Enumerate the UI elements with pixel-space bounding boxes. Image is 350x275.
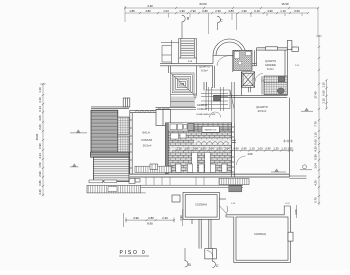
svg-text:8.90: 8.90 bbox=[147, 222, 153, 226]
svg-text:1.10: 1.10 bbox=[322, 98, 326, 104]
svg-text:45.60: 45.60 bbox=[35, 133, 39, 140]
svg-text:B: B bbox=[187, 16, 190, 21]
svg-text:0.90: 0.90 bbox=[265, 147, 271, 151]
svg-text:1.10: 1.10 bbox=[314, 132, 318, 138]
svg-text:0.95: 0.95 bbox=[241, 147, 247, 151]
svg-text:4.60: 4.60 bbox=[38, 115, 42, 121]
svg-text:1.10: 1.10 bbox=[322, 82, 326, 88]
svg-text:1.10: 1.10 bbox=[281, 147, 287, 151]
svg-text:1.90: 1.90 bbox=[241, 9, 247, 13]
svg-text:QUARTO: QUARTO bbox=[199, 65, 210, 69]
svg-text:20.5m²: 20.5m² bbox=[258, 109, 267, 113]
svg-text:0.90: 0.90 bbox=[38, 143, 42, 149]
svg-text:3.90: 3.90 bbox=[133, 216, 139, 220]
svg-text:1.90: 1.90 bbox=[179, 9, 185, 13]
svg-text:4.20: 4.20 bbox=[314, 180, 318, 186]
svg-text:7.70: 7.70 bbox=[314, 121, 318, 127]
svg-text:2.90: 2.90 bbox=[190, 9, 196, 13]
svg-text:0.60: 0.60 bbox=[322, 90, 326, 96]
svg-text:26.5m²: 26.5m² bbox=[143, 144, 152, 148]
svg-text:1.50: 1.50 bbox=[216, 147, 222, 151]
svg-text:PISO 0: PISO 0 bbox=[120, 250, 147, 256]
svg-text:1.50: 1.50 bbox=[184, 147, 190, 151]
svg-text:2.20: 2.20 bbox=[176, 147, 182, 151]
svg-text:4.90: 4.90 bbox=[267, 9, 273, 13]
svg-text:0.14: 0.14 bbox=[38, 106, 42, 112]
svg-text:0.60: 0.60 bbox=[294, 9, 300, 13]
svg-text:0.60: 0.60 bbox=[314, 139, 318, 145]
svg-text:0.90: 0.90 bbox=[314, 154, 318, 160]
svg-text:16.50: 16.50 bbox=[282, 2, 289, 6]
svg-text:1.04: 1.04 bbox=[163, 9, 169, 13]
svg-text:2.90: 2.90 bbox=[215, 9, 221, 13]
svg-text:1.04: 1.04 bbox=[314, 163, 318, 169]
svg-text:3.10: 3.10 bbox=[38, 97, 42, 103]
svg-text:BARBECUE: BARBECUE bbox=[205, 129, 218, 132]
svg-text:4.50: 4.50 bbox=[294, 209, 298, 215]
svg-text:4.14: 4.14 bbox=[38, 153, 42, 159]
svg-text:0.80: 0.80 bbox=[38, 180, 42, 186]
svg-text:1.04: 1.04 bbox=[224, 147, 230, 151]
svg-text:3.20: 3.20 bbox=[38, 189, 42, 195]
svg-text:COMUM: COMUM bbox=[141, 138, 153, 142]
svg-text:0.70: 0.70 bbox=[314, 197, 318, 203]
svg-text:COZINHA: COZINHA bbox=[195, 203, 207, 207]
svg-text:COMUM: COMUM bbox=[197, 107, 207, 111]
svg-text:1.25: 1.25 bbox=[273, 147, 279, 151]
svg-text:2.20: 2.20 bbox=[162, 216, 168, 220]
svg-text:0.80: 0.80 bbox=[202, 9, 208, 13]
svg-text:1.80: 1.80 bbox=[129, 9, 135, 13]
svg-text:C: C bbox=[220, 18, 223, 23]
svg-text:2.60: 2.60 bbox=[38, 124, 42, 130]
svg-text:GRANDE: GRANDE bbox=[265, 63, 276, 67]
svg-text:4.06: 4.06 bbox=[247, 152, 253, 156]
svg-text:1.35: 1.35 bbox=[287, 147, 293, 151]
svg-text:ELABORADO OBK: ELABORADO OBK bbox=[197, 113, 216, 116]
svg-text:27.40: 27.40 bbox=[314, 91, 318, 98]
svg-text:1.50: 1.50 bbox=[38, 162, 42, 168]
svg-text:C: C bbox=[216, 263, 219, 268]
svg-text:1.10: 1.10 bbox=[249, 147, 255, 151]
svg-text:QUARTO: QUARTO bbox=[265, 59, 276, 63]
svg-text:4.80: 4.80 bbox=[145, 9, 151, 13]
svg-text:B: B bbox=[188, 262, 191, 267]
svg-text:1.04: 1.04 bbox=[192, 147, 198, 151]
svg-text:4.30: 4.30 bbox=[314, 146, 318, 152]
svg-text:1.10: 1.10 bbox=[38, 87, 42, 93]
svg-text:1.04: 1.04 bbox=[208, 147, 214, 151]
svg-text:1.10: 1.10 bbox=[280, 9, 286, 13]
svg-text:COZINHA: COZINHA bbox=[254, 232, 266, 236]
svg-text:8.3m²: 8.3m² bbox=[201, 69, 208, 73]
svg-text:63.60: 63.60 bbox=[200, 2, 207, 6]
svg-text:2.90: 2.90 bbox=[38, 171, 42, 177]
svg-text:4.30: 4.30 bbox=[147, 4, 153, 8]
svg-text:0.80: 0.80 bbox=[148, 216, 154, 220]
svg-text:SALA: SALA bbox=[142, 131, 150, 135]
svg-text:8.2m²: 8.2m² bbox=[267, 67, 274, 71]
svg-text:0.10: 0.10 bbox=[254, 9, 260, 13]
svg-text:1.00: 1.00 bbox=[257, 147, 263, 151]
svg-text:1.50: 1.50 bbox=[200, 147, 206, 151]
svg-text:4.80: 4.80 bbox=[228, 9, 234, 13]
